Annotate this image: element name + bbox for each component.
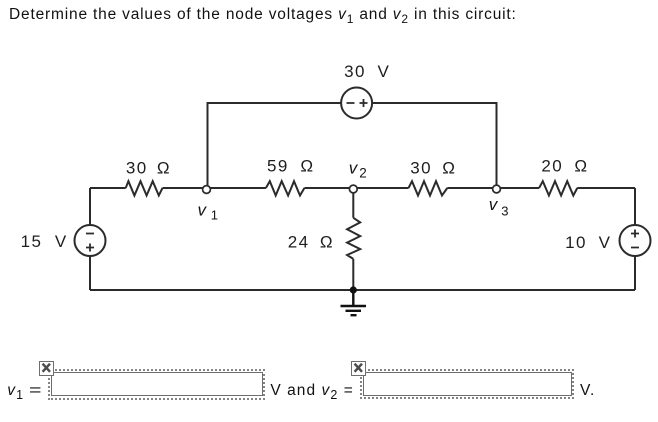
resistor R4 zigzag xyxy=(539,181,577,195)
svg-text:59Ω: 59Ω xyxy=(267,156,313,175)
node v1 circle xyxy=(203,186,211,194)
wire right branch lower xyxy=(634,256,636,290)
wire main horizontal right xyxy=(577,187,635,189)
resistor R2 zigzag xyxy=(266,181,305,195)
answer unit V. xyxy=(580,382,595,400)
answer label v1 = xyxy=(7,382,39,402)
wire bottom xyxy=(90,289,635,291)
ground symbol xyxy=(341,291,367,315)
wire v1 segment xyxy=(163,187,266,189)
answer input v2 marquee xyxy=(360,369,575,399)
svg-text:10V: 10V xyxy=(565,233,611,252)
svg-text:30V: 30V xyxy=(344,62,389,81)
node v2 circle xyxy=(349,185,357,193)
title text xyxy=(9,6,517,26)
resistor R5 zigzag vertical xyxy=(347,218,360,259)
voltage source V30 circle xyxy=(341,88,372,119)
voltage source V10 circle xyxy=(620,225,651,256)
wire v2 segment xyxy=(304,187,408,189)
wire left branch upper xyxy=(89,188,91,225)
junction dot ground node xyxy=(350,286,357,293)
svg-text:2: 2 xyxy=(359,166,367,181)
svg-text:v: v xyxy=(489,195,499,214)
wire v3 segment xyxy=(447,187,539,189)
node v3 circle xyxy=(493,185,501,193)
svg-text:1: 1 xyxy=(211,208,218,223)
svg-text:20Ω: 20Ω xyxy=(541,157,587,176)
wire main horizontal left xyxy=(90,187,126,189)
answer input v2 clear button xyxy=(351,361,366,376)
wire left branch lower xyxy=(89,256,91,290)
svg-text:30Ω: 30Ω xyxy=(126,159,170,178)
svg-text:v: v xyxy=(198,201,208,220)
wire middle branch upper xyxy=(352,190,354,218)
wire right branch upper xyxy=(634,188,636,225)
wire top left segment xyxy=(208,103,342,188)
resistor R1 zigzag xyxy=(126,181,163,195)
svg-text:v: v xyxy=(349,159,359,178)
answer input v1 field xyxy=(51,372,263,396)
resistor R3 zigzag xyxy=(409,181,448,195)
svg-text:15V: 15V xyxy=(21,232,67,251)
answer middle text xyxy=(270,382,353,402)
svg-text:3: 3 xyxy=(501,204,508,219)
answer input v1 clear button xyxy=(39,361,54,376)
svg-text:24Ω: 24Ω xyxy=(288,233,333,252)
answer input v1 marquee xyxy=(48,369,264,400)
voltage source V15 circle xyxy=(75,225,106,256)
svg-text:30Ω: 30Ω xyxy=(410,158,455,177)
answer input v2 field xyxy=(363,372,572,396)
wire top right segment xyxy=(372,103,496,188)
wire middle branch lower xyxy=(352,259,354,290)
